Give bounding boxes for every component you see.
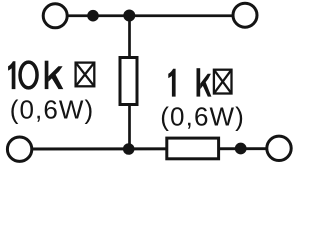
wire top rail <box>55 14 245 17</box>
wire bottom rail <box>20 147 280 150</box>
label R2 value letter k <box>197 68 212 96</box>
label R1 ohm missing-glyph box <box>76 63 95 87</box>
junction dot top A <box>87 10 99 22</box>
terminal bottom-right <box>267 136 291 160</box>
label R1 value digit 1 <box>8 61 15 89</box>
terminal top-left <box>43 4 67 28</box>
label R1 value digit 0 <box>20 62 37 88</box>
svg-text:(0,6W): (0,6W) <box>160 102 245 132</box>
terminal bottom-left <box>7 137 31 161</box>
svg-text:(0,6W): (0,6W) <box>10 94 95 124</box>
junction dot bottom A <box>123 143 135 155</box>
wire vertical branch <box>128 16 131 149</box>
terminal top-right <box>233 3 257 27</box>
label R1 value letter k <box>45 61 64 89</box>
junction dot top B <box>123 10 135 22</box>
label R2 value digit 1 <box>168 69 175 97</box>
resistor R2 body (horizontal) <box>167 138 219 159</box>
junction dot bottom B <box>235 143 247 155</box>
label R2 ohm missing-glyph box <box>214 70 232 94</box>
resistor R1 body (vertical) <box>120 58 137 105</box>
